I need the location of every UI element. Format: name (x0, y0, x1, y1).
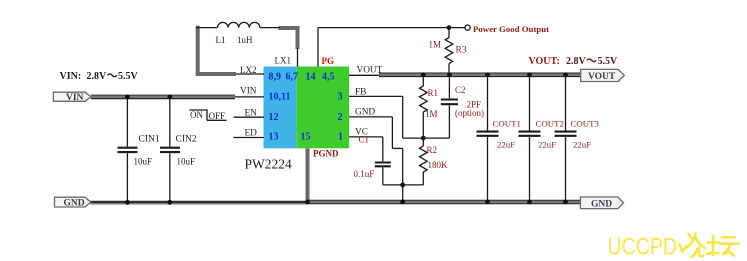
svg-text:VIN: VIN (66, 93, 84, 103)
svg-text:LX2: LX2 (240, 65, 257, 75)
svg-text:COUT1: COUT1 (493, 119, 521, 129)
svg-text:2: 2 (338, 112, 343, 123)
svg-text:0.1uF: 0.1uF (354, 169, 375, 179)
svg-text:VIN: VIN (240, 87, 257, 97)
svg-text:ON: ON (190, 110, 203, 120)
svg-text:8,9: 8,9 (269, 72, 282, 83)
svg-text:22uF: 22uF (497, 140, 515, 150)
svg-text:VOUT: VOUT (588, 72, 616, 82)
svg-text:L1: L1 (216, 35, 226, 45)
svg-text:EN: EN (245, 109, 258, 119)
svg-text:22uF: 22uF (573, 140, 591, 150)
svg-text:ED: ED (245, 129, 258, 139)
svg-text:2.8V: 2.8V (566, 56, 587, 67)
svg-text:PGND: PGND (313, 149, 339, 159)
svg-text:UCCPD: UCCPD (608, 234, 678, 261)
svg-text:180K: 180K (428, 160, 449, 170)
svg-text:VOUT: VOUT (357, 66, 383, 76)
svg-text:3: 3 (338, 92, 343, 103)
svg-text:GND: GND (591, 199, 612, 209)
svg-text:14: 14 (306, 72, 316, 83)
svg-text:OFF: OFF (209, 111, 226, 121)
svg-text:LX1: LX1 (275, 56, 292, 66)
svg-text:C2: C2 (455, 85, 466, 95)
svg-text:2.8V: 2.8V (87, 71, 108, 82)
svg-text:C1: C1 (359, 135, 370, 145)
svg-text:6,7: 6,7 (286, 72, 299, 83)
svg-text:R3: R3 (456, 46, 467, 56)
svg-text:Power Good Output: Power Good Output (473, 24, 549, 34)
svg-text:10uF: 10uF (177, 157, 196, 167)
svg-text:R2: R2 (427, 145, 438, 155)
svg-text:1M: 1M (429, 40, 442, 50)
svg-text:R1: R1 (428, 88, 439, 98)
svg-text:1uH: 1uH (237, 35, 253, 45)
svg-text:COUT3: COUT3 (571, 119, 600, 129)
svg-text:12: 12 (269, 112, 279, 123)
svg-text:5.5V: 5.5V (598, 56, 619, 67)
svg-text:(option): (option) (455, 108, 484, 118)
svg-text:10,11: 10,11 (269, 92, 291, 103)
svg-text:CIN2: CIN2 (176, 135, 197, 145)
svg-text:22uF: 22uF (538, 140, 556, 150)
svg-text:1: 1 (338, 132, 343, 143)
svg-text:CIN1: CIN1 (139, 135, 160, 145)
svg-text:VIN:: VIN: (60, 71, 82, 82)
svg-text:FB: FB (355, 88, 366, 98)
svg-text:5.5V: 5.5V (118, 71, 139, 82)
svg-text:PW2224: PW2224 (245, 156, 293, 171)
svg-text:1M: 1M (425, 109, 438, 119)
svg-text:15: 15 (301, 132, 311, 143)
svg-text:GND: GND (355, 108, 375, 118)
svg-text:COUT2: COUT2 (536, 119, 564, 129)
svg-text:13: 13 (269, 132, 279, 143)
svg-text:10uF: 10uF (134, 157, 153, 167)
svg-text:PG: PG (322, 56, 335, 66)
svg-text:VOUT:: VOUT: (529, 56, 560, 67)
svg-text:GND: GND (64, 199, 85, 209)
svg-text:4,5: 4,5 (322, 72, 335, 83)
